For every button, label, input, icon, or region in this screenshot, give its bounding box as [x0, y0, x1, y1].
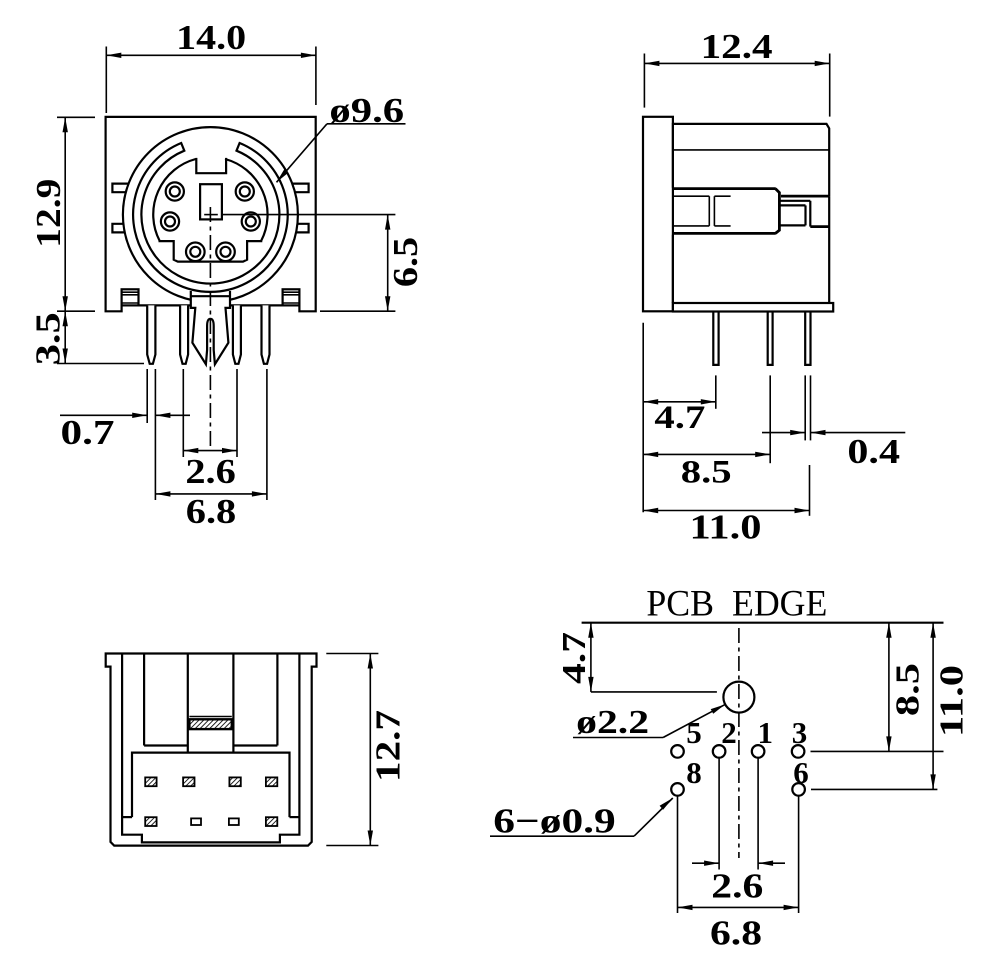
svg-text:6.8: 6.8 [186, 492, 237, 531]
svg-text:3: 3 [792, 715, 808, 750]
dimension 12.7 extension lines [326, 653, 378, 655]
svg-text:6−ø0.9: 6−ø0.9 [493, 802, 616, 841]
svg-text:4.7: 4.7 [556, 632, 593, 684]
svg-text:11.0: 11.0 [934, 665, 971, 737]
label diameter 2.2 leader [573, 737, 663, 739]
svg-text:8.5: 8.5 [681, 455, 732, 491]
dimension 3.5 extension line [57, 363, 144, 365]
svg-text:12.4: 12.4 [701, 27, 773, 66]
rear view: inner shell walls [122, 654, 299, 843]
svg-text:11.0: 11.0 [690, 508, 762, 547]
dimension 6.8 (front) [155, 493, 267, 495]
rear view: open pad row2 col3 [229, 818, 239, 825]
dimension 3.5 [64, 311, 66, 363]
front view: key slot center tick [204, 214, 218, 216]
rear view: solder pad row1 col3 [229, 777, 240, 786]
svg-text:14.0: 14.0 [176, 18, 246, 57]
rear view: insert cavity box [132, 753, 290, 818]
dimension 12.4 [644, 62, 829, 64]
svg-text:8.5: 8.5 [890, 663, 927, 716]
rear view: shield tab hatched bar [189, 716, 231, 718]
dimension 14.0 extension lines [105, 47, 107, 114]
dimension 11.0 (pcb) [932, 623, 934, 790]
side view: contact top wall [673, 187, 776, 190]
svg-text:2.6: 2.6 [185, 452, 236, 491]
rear view: center tongue [187, 654, 189, 753]
dimension 11.0 (pcb) reference line [811, 788, 937, 790]
svg-text:6: 6 [793, 755, 809, 790]
front view: pcb pin 4 [262, 305, 270, 363]
dimension 2.6 (pcb) [692, 862, 719, 864]
front view: pin hole 3 (mid-left) [161, 212, 179, 230]
pcb hole 8 [671, 783, 684, 796]
svg-text:12.7: 12.7 [369, 710, 408, 782]
svg-text:12.9: 12.9 [29, 179, 68, 248]
pcb hole 6 [792, 783, 805, 796]
dimension 12.9 [64, 117, 66, 311]
dimension 6.5 [387, 215, 389, 312]
svg-text:5: 5 [686, 715, 702, 750]
svg-text:6.8: 6.8 [710, 913, 762, 952]
rear view: outer shell [106, 654, 317, 846]
front view: pin hole 6 (bottom-right) [216, 243, 235, 262]
side view: pcb pin B [768, 312, 773, 365]
front view: pcb pin 2 [180, 305, 188, 363]
side view: front flange [643, 117, 673, 311]
pcb hole 5 [671, 745, 684, 758]
dimension 12.4 extension lines [643, 54, 645, 108]
side view: contact cavity lines [673, 195, 709, 197]
front view: pin hole 1 (top-left) [166, 182, 184, 200]
dimension 8.5 (pcb) [888, 623, 890, 752]
front view: plastic insert outline with key notch [153, 159, 267, 262]
side view: pcb pin A [713, 312, 718, 365]
pcb hole 3 [792, 745, 805, 758]
front view: body bottom edge [122, 304, 191, 306]
front view: center shield plug with blade [191, 291, 230, 364]
rear view: open pad row2 col2 [191, 818, 201, 825]
side view: rear terminal box [780, 200, 811, 202]
dimension 14.0 [106, 54, 316, 56]
pcb center dash-dot line [738, 628, 740, 858]
front view: mounting bracket left [122, 289, 139, 305]
front pin extension lines [146, 369, 148, 423]
front view: shield outer circle [123, 127, 298, 302]
dimension 12.9 extension lines [57, 116, 95, 118]
front view: pin hole 5 (bottom-left) [186, 243, 205, 262]
side view: lower body block [673, 196, 829, 303]
dimension 8.5 (pcb) reference line [811, 750, 944, 752]
side view: contact right end [775, 189, 779, 234]
side view: contact bottom wall [673, 232, 776, 235]
dimension 4.7 (pcb) [590, 623, 592, 692]
pcb extension lines [718, 758, 720, 870]
side view: upper block parting line [673, 149, 829, 151]
rear view: inner ledge lines [122, 816, 132, 818]
rear view: solder pad row1 col4 [266, 777, 277, 786]
front view: vertical centerline [209, 207, 211, 450]
pcb hole 1 [752, 745, 765, 758]
dimension 4.7 (side) [643, 401, 716, 403]
front view: shield ring (diameter 9.6) with top gap [133, 143, 288, 292]
svg-text:2: 2 [721, 715, 737, 750]
front view: shield tab lower-left [112, 224, 124, 233]
front view: shield tab upper-right [292, 184, 308, 193]
svg-text:4.7: 4.7 [654, 400, 705, 436]
dimension 6.5 leader line [222, 214, 395, 216]
rear view: solder pad row2 col1 [145, 817, 156, 826]
label diameter 9.6 leader [327, 123, 406, 125]
dimension 11.0 (side) [643, 510, 809, 512]
svg-text:ø9.6: ø9.6 [329, 91, 404, 130]
pcb edge line [582, 622, 944, 624]
front view: pin hole 2 (top-right) [236, 182, 254, 200]
side view: upper body block [673, 124, 829, 196]
front view: pcb pin 3 [233, 305, 241, 363]
side view: contact spring bar [708, 196, 710, 226]
dimension 0.7 [60, 414, 147, 416]
front view: pin hole 4 (mid-right) [242, 212, 260, 230]
front view: shield tab upper-left [112, 184, 128, 193]
dimension 6.8 (pcb) [678, 906, 799, 908]
pcb mounting hole (2.2) [723, 682, 754, 713]
dimension 2.6 (front) [183, 450, 237, 452]
rear view: upper cavity wall right [276, 654, 278, 746]
rear view: solder pad row2 col4 [266, 817, 277, 826]
front view: connector body outline [106, 117, 316, 311]
svg-text:ø2.2: ø2.2 [576, 704, 649, 741]
svg-text:6.5: 6.5 [386, 237, 425, 287]
rear view: upper cavity wall left [143, 654, 145, 746]
rear view: solder pad row1 col2 [183, 777, 194, 786]
label 6-diameter 0.9 leader [490, 835, 634, 837]
svg-text:3.5: 3.5 [29, 312, 68, 365]
side view: pcb pin C [805, 312, 810, 365]
front view: bottom plug white mask [191, 290, 230, 311]
svg-text:PCB EDGE: PCB EDGE [646, 584, 827, 625]
svg-text:1: 1 [758, 715, 774, 750]
side pin extension lines [642, 323, 644, 513]
svg-text:2.6: 2.6 [711, 867, 763, 906]
front view: pcb pin 1 [147, 305, 155, 363]
svg-text:0.4: 0.4 [847, 432, 900, 471]
rear view: solder pad row1 col1 [145, 777, 156, 786]
dimension 12.7 [369, 654, 371, 846]
dimension 0.4 [762, 432, 805, 434]
front view: shield tab lower-right [296, 224, 309, 233]
side view: base plate [673, 303, 833, 312]
dimension 6.5 extension line [320, 310, 395, 312]
svg-text:0.7: 0.7 [61, 413, 115, 452]
front view: mounting bracket right [283, 289, 300, 305]
svg-text:8: 8 [686, 755, 702, 790]
pcb hole 2 [713, 745, 726, 758]
front view: center key slot rectangle [200, 184, 222, 219]
dimension 8.5 (side) [643, 453, 770, 455]
